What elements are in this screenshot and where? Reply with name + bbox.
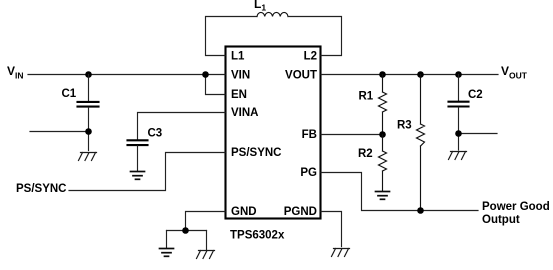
wire PGND	[321, 212, 342, 247]
wire C3 bottom lead	[137, 146, 139, 171]
wire ground rail left	[30, 131, 89, 133]
capacitor C2	[449, 102, 469, 107]
capacitor C1	[78, 102, 99, 107]
node GND junction	[182, 227, 189, 234]
pin VOUT label	[285, 70, 317, 82]
svg-text:R1: R1	[359, 91, 374, 103]
label TPS6302x	[230, 230, 285, 242]
node VOUT/R1 junction	[379, 71, 386, 78]
label R2	[358, 148, 373, 160]
svg-text:C1: C1	[62, 88, 77, 100]
pin PS/SYNC label	[231, 147, 282, 159]
label R1	[359, 91, 374, 103]
resistor R2	[379, 135, 387, 192]
ground chassis below PGND	[332, 249, 350, 257]
wire C2 ground stub	[459, 133, 498, 135]
svg-text:GND: GND	[231, 206, 257, 218]
ground earth below C3	[131, 172, 145, 180]
wire L1 pin loop left	[206, 17, 258, 56]
wire C1 bottom lead	[88, 108, 90, 151]
label C3	[148, 128, 163, 140]
node FB/R1/R2 junction	[379, 131, 386, 138]
wire VIN input	[28, 74, 225, 76]
inductor L1	[257, 12, 288, 16]
wire VINA	[138, 113, 226, 140]
pin L1 label	[231, 51, 245, 63]
svg-text:EN: EN	[231, 89, 247, 101]
pin EN label	[231, 89, 247, 101]
wire C2 bottom lead	[458, 107, 460, 150]
svg-text:PS/SYNC: PS/SYNC	[16, 183, 67, 195]
svg-text:PG: PG	[300, 167, 317, 179]
pin PGND label	[284, 206, 317, 218]
node VIN/C1 junction	[85, 71, 92, 78]
svg-text:R3: R3	[397, 120, 412, 132]
label L1 inductor	[254, 0, 266, 13]
pin L2 label	[304, 51, 317, 63]
node VIN/EN junction	[202, 71, 209, 78]
svg-text:VOUT: VOUT	[285, 70, 317, 82]
svg-text:Output: Output	[482, 214, 520, 226]
ground earth below GND	[160, 249, 174, 257]
label PS/SYNC input	[16, 183, 67, 195]
wire chassis ground lead	[206, 231, 208, 250]
label VIN input	[7, 64, 24, 81]
svg-text:C2: C2	[468, 89, 483, 101]
svg-text:TPS6302x: TPS6302x	[230, 230, 285, 242]
svg-text:VINA: VINA	[231, 107, 258, 119]
ground chassis below C2	[449, 152, 467, 160]
wire GND branch rail	[167, 230, 207, 232]
node VOUT/C2 junction	[455, 71, 462, 78]
label R3	[397, 120, 412, 132]
wire PS/SYNC input	[69, 153, 225, 191]
op-amp U1 TPS6302x IC body	[226, 47, 321, 219]
wire GND pin	[186, 212, 226, 231]
svg-text:VOUT: VOUT	[501, 64, 528, 81]
svg-text:FB: FB	[302, 129, 317, 141]
pin VIN label	[231, 70, 250, 82]
wire PG output	[321, 173, 478, 211]
svg-text:R2: R2	[358, 148, 373, 160]
svg-text:VIN: VIN	[231, 70, 250, 82]
pin GND label	[231, 206, 257, 218]
wire EN branch	[206, 75, 226, 95]
label VOUT output	[501, 64, 528, 81]
wire L2 pin loop right	[288, 17, 342, 56]
node PG/R3 junction	[417, 207, 424, 214]
ground chassis right of GND	[197, 251, 215, 259]
resistor R1	[379, 75, 387, 135]
capacitor C3	[128, 140, 148, 145]
ground earth below R2	[376, 192, 390, 200]
svg-text:VIN: VIN	[7, 64, 24, 81]
label C1	[62, 88, 77, 100]
label Power Good Output	[482, 201, 550, 226]
svg-text:L1: L1	[231, 51, 245, 63]
svg-text:PS/SYNC: PS/SYNC	[231, 147, 282, 159]
pin FB label	[302, 129, 317, 141]
wire C2 top lead	[458, 75, 460, 101]
node C2 bottom junction	[455, 130, 462, 137]
label C2	[468, 89, 483, 101]
wire earth ground lead	[166, 231, 168, 249]
wire FB	[321, 134, 383, 136]
svg-text:L2: L2	[304, 51, 317, 63]
pin VINA label	[231, 107, 258, 119]
svg-text:PGND: PGND	[284, 206, 317, 218]
svg-text:L1: L1	[254, 0, 266, 13]
node VOUT/R3 junction	[417, 71, 424, 78]
svg-text:Power Good: Power Good	[482, 201, 550, 213]
resistor R3	[417, 75, 425, 211]
svg-text:C3: C3	[148, 128, 163, 140]
wire C1 top lead	[88, 75, 90, 102]
wire VOUT rail	[321, 74, 498, 76]
pin PG label	[300, 167, 317, 179]
ground chassis below C1	[79, 153, 97, 161]
node C1/ground rail junction	[85, 128, 92, 135]
